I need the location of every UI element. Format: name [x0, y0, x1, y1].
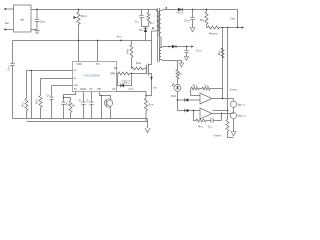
capacitor CDD [61, 102, 71, 118]
resistor CL_CC [199, 84, 223, 90]
wire bridge return [31, 29, 37, 31]
wire vout corner [237, 10, 239, 28]
svg-text:GND: GND [80, 88, 86, 91]
resistor RSA [132, 61, 147, 70]
svg-text:Out: Out [230, 16, 235, 20]
wire fb to opto [100, 92, 102, 119]
wire VDD net [13, 40, 152, 42]
capacitor COUT [184, 10, 195, 28]
resistor RSN [125, 41, 133, 69]
wire tc pin [64, 92, 76, 103]
transformer core [158, 8, 160, 62]
node cv out fb [221, 113, 223, 115]
node cout [192, 9, 194, 11]
diode DB [172, 45, 176, 49]
wire cc output [212, 98, 234, 100]
ground primary input [34, 31, 39, 34]
svg-text:FB: FB [97, 88, 100, 91]
wire cv fb branch [194, 111, 197, 121]
svg-text:OC1: OC1 [171, 94, 177, 98]
svg-text:VAB_CV: VAB_CV [237, 115, 246, 118]
label net [117, 36, 122, 39]
startup arrow mark [74, 16, 77, 19]
IC U1 UCC28740 [73, 62, 117, 92]
transistor Q1 source [146, 74, 152, 96]
diode cv steer [185, 109, 200, 113]
wire to top pin2 [97, 41, 99, 62]
label ovreg [214, 135, 222, 137]
op-amp U2A [200, 93, 212, 104]
svg-text:VOREG: VOREG [214, 135, 222, 137]
wire opto cathode [177, 91, 179, 110]
node bulk [36, 9, 38, 11]
node cv sense [227, 110, 229, 112]
node startup [78, 9, 80, 11]
node cv fb node [193, 110, 195, 112]
diode DOUT [177, 8, 184, 15]
transformer primary winding [152, 10, 160, 41]
node opto base [101, 95, 103, 97]
transistor Q1 drain [148, 41, 151, 65]
ground references [231, 132, 236, 136]
wire sense cc [222, 28, 224, 99]
resistor RCL [147, 10, 155, 27]
node shunt sense b [227, 27, 229, 29]
wire cv output [212, 113, 234, 115]
resistor RSTR [77, 10, 87, 41]
input terminal top lead [4, 8, 14, 10]
node rc branch [63, 97, 65, 99]
transformer aux winding [160, 47, 178, 61]
capacitor CP1 [6, 63, 14, 118]
capacitor CL_CV [206, 118, 222, 128]
svg-text:UCC28740: UCC28740 [84, 74, 100, 78]
node gate r [131, 73, 133, 75]
node shunt sense a [222, 27, 224, 29]
resistor RCS [145, 92, 154, 122]
svg-text:DRV: DRV [110, 73, 115, 76]
label VccS [196, 48, 203, 52]
svg-text:TC: TC [74, 88, 77, 91]
resistor RREG [226, 111, 234, 138]
opto transistor Q2 [102, 96, 113, 119]
node aux dot [168, 46, 170, 48]
label Out [230, 16, 235, 20]
wire vccs [176, 45, 194, 47]
svg-text:VDD: VDD [76, 63, 81, 66]
diode DCL [139, 28, 147, 40]
label VAC [5, 21, 10, 25]
wire cv fb up [221, 114, 223, 121]
node vout-shunt [237, 27, 239, 29]
wire startup to VDD pin [78, 41, 80, 62]
wire sense cv [227, 28, 229, 111]
wire gnd bus2 [27, 119, 148, 122]
node rpre [206, 9, 208, 11]
svg-text:DG: DG [124, 81, 128, 84]
svg-text:IDS: IDS [153, 87, 157, 90]
node opto cc [177, 99, 179, 101]
svg-text:HV: HV [96, 63, 100, 66]
wire fb pin [41, 78, 73, 80]
svg-text:φIn: φIn [20, 18, 24, 22]
svg-text:CT: CT [89, 88, 93, 91]
wire vs gnd [31, 71, 33, 119]
capacitor C1 [78, 92, 85, 119]
capacitor C2 [86, 92, 93, 119]
resistor RS2 [35, 79, 42, 119]
wire opto cv corner [178, 110, 185, 112]
svg-text:CS: CS [112, 88, 116, 91]
transistor Q1 gate [145, 65, 147, 74]
resistor RG [114, 67, 146, 75]
diode cc steer [178, 98, 201, 102]
wire cbc pin [52, 85, 73, 87]
capacitor CF [46, 86, 53, 119]
op-amp U2B [200, 108, 212, 119]
node VDD rail dot [120, 40, 122, 42]
node vccs [186, 46, 188, 48]
wire aux gnd branch [178, 61, 182, 64]
bridge rectifier block [14, 5, 32, 32]
capacitor CBLK [35, 10, 46, 30]
capacitor CB [185, 47, 189, 57]
diode DG [118, 74, 132, 88]
ground aux [179, 63, 183, 67]
svg-text:VDD: VDD [117, 36, 122, 39]
resistor RLD [217, 48, 224, 58]
node startup-vdd [78, 40, 80, 42]
ground vccs [184, 57, 188, 61]
transformer secondary winding [159, 10, 164, 48]
node secondary polarity dot [166, 7, 168, 9]
svg-text:VAB_CC: VAB_CC [237, 103, 246, 106]
node vs branch [31, 70, 33, 72]
wire cv sense connect [213, 110, 228, 112]
wire secondary rail [164, 9, 238, 11]
wire aux tap [164, 46, 172, 48]
resistor RSHUNT [207, 26, 245, 35]
resistor RC_CV [196, 119, 206, 129]
wire vs pin [27, 70, 73, 72]
opto LED OC1 [171, 83, 181, 98]
label CVreg [230, 90, 238, 92]
node cc fb [222, 98, 224, 100]
resistor RC_CC [191, 84, 199, 90]
wire cc inv input [191, 89, 201, 96]
resistor RS1 [21, 71, 28, 119]
wire clamp join [142, 27, 149, 29]
resistor RF [64, 98, 76, 119]
ground primary arrow [145, 122, 150, 133]
node primary polarity dot [152, 27, 154, 29]
svg-text:VCREG: VCREG [230, 90, 238, 92]
wire gnd bus [13, 118, 148, 120]
svg-text:RG: RG [114, 67, 118, 70]
ground cout [190, 28, 195, 32]
wire cs pin [117, 87, 147, 92]
wire left drop [12, 41, 14, 64]
capacitor CCL [135, 10, 144, 27]
source VAB_CC [230, 99, 246, 113]
resistor RPL [200, 10, 208, 28]
node source cs [145, 95, 147, 97]
resistor RBIAS [176, 61, 182, 85]
input terminal bottom lead [4, 28, 14, 30]
svg-text:CBC: CBC [73, 85, 78, 87]
source VAB_CV [230, 112, 246, 131]
svg-text:RCS: RCS [149, 104, 154, 107]
wire bulk rail [31, 9, 157, 11]
current arrow Ids [150, 77, 157, 90]
transistor Q1 channel [147, 64, 149, 76]
node hv pin [97, 40, 99, 42]
